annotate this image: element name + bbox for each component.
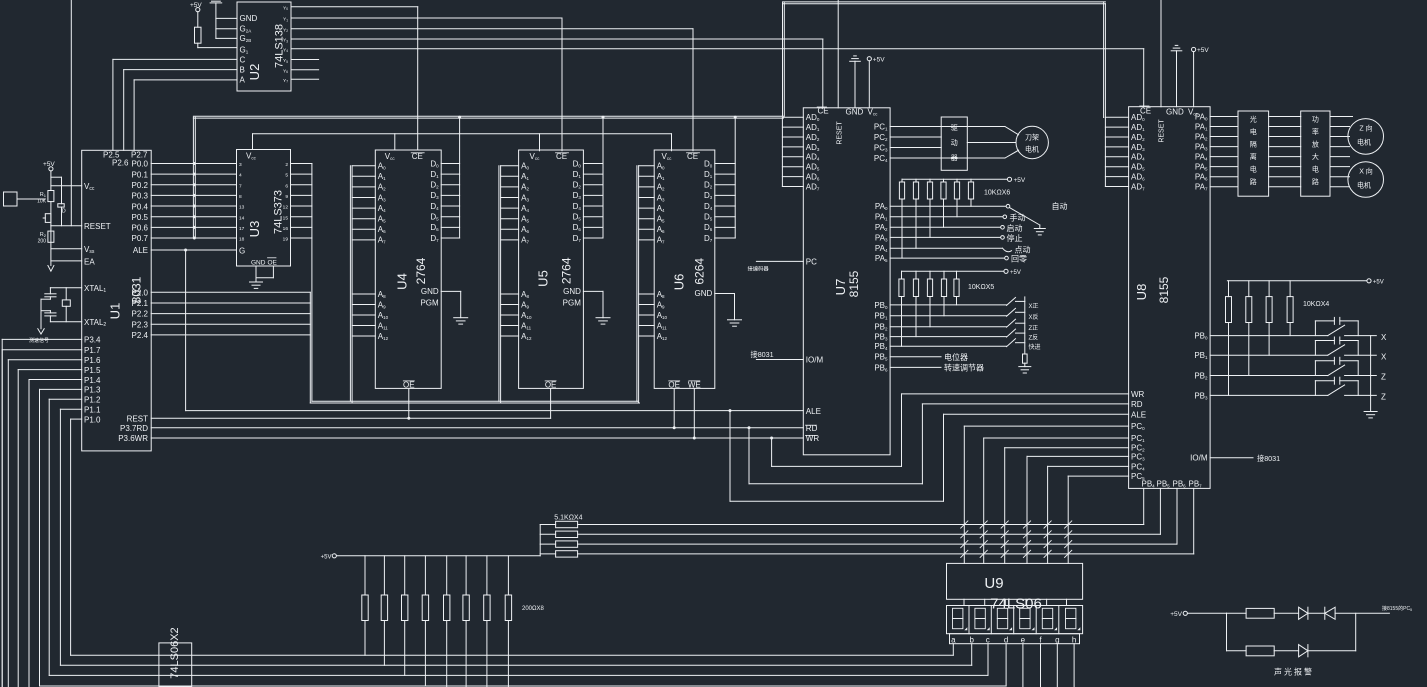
svg-text:启动: 启动	[1007, 223, 1023, 233]
svg-text:74LS373: 74LS373	[273, 190, 285, 234]
EPROM U5 2764	[519, 150, 584, 388]
svg-text:隔: 隔	[1250, 140, 1257, 149]
svg-text:RD: RD	[1131, 400, 1143, 409]
wire Y0 to U4 CE	[291, 6, 418, 8]
svg-text:P2.7: P2.7	[131, 151, 148, 160]
wire switch common vertical	[1370, 336, 1372, 412]
wire U5 address bus vertical	[498, 166, 500, 402]
svg-text:8155: 8155	[1157, 276, 1171, 303]
svg-text:P0.7: P0.7	[132, 234, 149, 243]
svg-text:P0.2: P0.2	[132, 181, 149, 190]
svg-text:WR: WR	[1131, 390, 1145, 399]
svg-text:自动: 自动	[1052, 201, 1068, 211]
svg-text:74LS06X2: 74LS06X2	[169, 627, 181, 678]
svg-text:PGM: PGM	[563, 299, 582, 308]
svg-text:GND: GND	[1166, 107, 1184, 116]
wire U4 address stubs	[352, 165, 375, 167]
svg-text:X正: X正	[1029, 303, 1039, 310]
svg-text:U9: U9	[984, 575, 1003, 592]
wire A bus horizontal	[310, 402, 639, 404]
wire U8 IO/M to 8031	[1210, 457, 1253, 459]
svg-text:5.1KΩX4: 5.1KΩX4	[554, 515, 582, 522]
svg-text:路: 路	[1250, 177, 1257, 186]
svg-text:X 向: X 向	[1359, 167, 1373, 176]
svg-text:200: 200	[38, 239, 47, 245]
wire U6 WE drop	[693, 388, 695, 438]
ground (U6)	[715, 293, 735, 295]
wire U6 data bus vertical	[734, 117, 736, 238]
junction hatch marks (bus taps)	[961, 521, 968, 528]
wire U4 data stubs	[441, 163, 459, 165]
svg-text:P1.2: P1.2	[84, 396, 101, 405]
resistor network RN4 5.1KΩX4	[540, 524, 555, 526]
wire segment row d	[40, 685, 1007, 687]
wire P0/AD bus vertical	[192, 117, 194, 238]
7-seg digit	[1042, 608, 1052, 618]
wire PB5 (potentiometer)	[890, 356, 941, 358]
svg-text:Y1: Y1	[283, 17, 288, 23]
svg-text:h: h	[1072, 635, 1076, 644]
svg-text:器: 器	[951, 154, 958, 162]
svg-text:P1.1: P1.1	[84, 406, 101, 415]
wire U8 AD stubs	[1105, 116, 1128, 118]
ground (U7 top)	[850, 60, 861, 62]
svg-text:点动: 点动	[1015, 245, 1031, 255]
svg-text:17: 17	[239, 226, 245, 232]
svg-text:XTAL2: XTAL2	[84, 318, 106, 328]
svg-text:动: 动	[951, 138, 958, 147]
wire U4 data bus vertical	[459, 117, 461, 238]
svg-text:电机: 电机	[1357, 181, 1371, 190]
wire PA0 row + selector switch to ground	[890, 205, 1006, 207]
peripheral U8 8155	[1129, 107, 1211, 489]
wire U8 PA stubs	[1210, 116, 1238, 118]
wire Y3 to U7 CE	[291, 38, 823, 40]
svg-text:P1.3: P1.3	[84, 386, 101, 395]
svg-text:Y7: Y7	[283, 78, 288, 84]
wire switch common to ground via R	[1024, 297, 1026, 354]
decoder U2 74LS138	[237, 2, 291, 91]
svg-text:+5V: +5V	[321, 554, 332, 560]
wire Y5-Y7 stubs	[291, 59, 319, 61]
ground (U5)	[583, 290, 603, 292]
svg-text:X: X	[1381, 333, 1387, 342]
svg-text:接8031: 接8031	[1257, 454, 1280, 463]
limit switch S1 (X)	[1210, 335, 1328, 337]
svg-text:U8: U8	[1134, 284, 1149, 301]
svg-text:10KΩX6: 10KΩX6	[984, 190, 1010, 197]
wire XTAL1 row	[50, 287, 81, 289]
wire U7 AD stubs	[782, 116, 803, 118]
svg-text:19: 19	[283, 237, 289, 243]
svg-text:转速调节器: 转速调节器	[944, 362, 984, 372]
svg-text:测速信号: 测速信号	[29, 337, 49, 344]
svg-text:PGM: PGM	[420, 299, 439, 308]
wire R1 to RESET node	[50, 202, 52, 226]
svg-text:R2: R2	[40, 232, 47, 238]
svg-text:+5V: +5V	[190, 2, 202, 9]
svg-text:P2.2: P2.2	[132, 310, 149, 319]
resistor network RN2 10KΩX5	[902, 270, 1005, 272]
svg-text:U5: U5	[536, 270, 551, 287]
limit switch S4 (Z)	[1210, 394, 1328, 396]
svg-text:电机: 电机	[1025, 145, 1039, 154]
svg-text:大: 大	[1312, 152, 1319, 161]
svg-text:OE: OE	[668, 380, 680, 389]
SRAM U6 6264	[654, 150, 715, 388]
svg-text:U4: U4	[395, 273, 410, 290]
capacitor C2	[49, 316, 51, 322]
svg-text:电: 电	[1312, 165, 1319, 174]
svg-text:18: 18	[239, 237, 245, 243]
svg-text:2764: 2764	[560, 257, 574, 284]
wire U6 address stubs	[639, 165, 655, 167]
7-seg digit	[953, 608, 963, 618]
resistor R5	[1227, 650, 1247, 652]
wire U3 outputs to A-bus	[291, 163, 312, 165]
svg-text:U7: U7	[833, 279, 848, 296]
capacitor C1	[49, 288, 51, 294]
svg-text:74LS06: 74LS06	[990, 596, 1042, 613]
wire external reset line	[70, 0, 72, 226]
power +5V (display rail)	[332, 554, 336, 558]
wire segment row a	[71, 654, 954, 656]
power +5V (alarm)	[1183, 611, 1187, 615]
svg-text:10KΩX5: 10KΩX5	[968, 284, 994, 291]
resistor R4	[1227, 612, 1247, 614]
MCU U1 8031	[82, 150, 152, 451]
svg-text:GND: GND	[695, 289, 713, 298]
power +5V terminal (reset circuit)	[49, 167, 53, 171]
svg-text:P0.5: P0.5	[132, 213, 149, 222]
limit switch S3 (Z)	[1210, 375, 1328, 377]
svg-text:+5V: +5V	[1170, 611, 1182, 618]
svg-text:电: 电	[1250, 165, 1257, 174]
svg-text:GND: GND	[563, 287, 581, 296]
svg-text:电机: 电机	[1357, 138, 1371, 147]
svg-text:P3.7RD: P3.7RD	[120, 424, 148, 433]
wire Y2 to U6 CE	[291, 28, 693, 30]
svg-text:a: a	[951, 635, 956, 644]
wire U7 RESET from top	[837, 0, 839, 108]
svg-text:OE: OE	[268, 259, 278, 266]
svg-text:IO/M: IO/M	[1190, 454, 1208, 463]
svg-text:6264: 6264	[692, 258, 706, 285]
wire PSEN row	[151, 417, 550, 419]
wire bundle P1.7-P1.0	[2, 349, 82, 351]
wire +5V rail (display)	[336, 555, 540, 557]
svg-text:C: C	[240, 55, 246, 64]
motor M1 (spindle)	[1016, 126, 1048, 158]
wire U6 address bus vertical	[636, 166, 638, 402]
wire P0.0-P0.7 data lines	[151, 163, 236, 165]
power +5V (RN2)	[1004, 269, 1008, 273]
svg-text:g: g	[1055, 635, 1059, 644]
wire PA2 row	[890, 226, 1000, 228]
svg-text:10KΩX4: 10KΩX4	[1303, 301, 1329, 308]
svg-text:P2.3: P2.3	[132, 320, 149, 329]
pushbutton S1	[45, 214, 51, 223]
svg-text:P0.4: P0.4	[132, 202, 149, 211]
svg-text:接8031: 接8031	[751, 350, 774, 359]
svg-text:P0.3: P0.3	[132, 192, 149, 201]
diode D2 (reverse)	[1324, 607, 1326, 619]
svg-text:RESET: RESET	[837, 121, 844, 145]
svg-text:驱: 驱	[951, 124, 958, 132]
7-seg digit	[975, 608, 985, 618]
wire ALE net to U8	[729, 411, 731, 502]
wire +5V to R1	[50, 171, 52, 191]
svg-text:U6: U6	[672, 274, 687, 291]
svg-text:d: d	[1004, 635, 1008, 644]
svg-text:OE: OE	[403, 380, 415, 389]
7-seg digit	[1020, 608, 1030, 618]
svg-text:5: 5	[285, 173, 288, 179]
wire PA5 row	[890, 257, 1004, 259]
wire AD bus horizontal	[193, 115, 783, 117]
motor M2 Z-axis	[1348, 119, 1384, 155]
resistor network RN3 10KΩX4	[1227, 280, 1367, 282]
svg-text:+5V: +5V	[1014, 177, 1026, 184]
wire XTAL2 row	[50, 321, 81, 323]
svg-text:WE: WE	[688, 380, 701, 389]
svg-text:14: 14	[239, 215, 245, 221]
wire PA4 row	[890, 247, 1002, 249]
wire U9 outputs to display	[963, 599, 965, 605]
EPROM U4 2764	[375, 150, 441, 388]
svg-text:2: 2	[285, 162, 288, 168]
svg-text:快进: 快进	[1029, 343, 1041, 351]
svg-text:9: 9	[285, 194, 288, 200]
driver U9 74LS06	[947, 563, 1083, 599]
resistor R2	[48, 231, 54, 242]
power +5V (RN1)	[1007, 177, 1011, 181]
svg-text:R1: R1	[40, 192, 47, 198]
wire U4 OE drop	[408, 388, 410, 418]
ground arrow (crystal)	[38, 329, 44, 334]
wire U8 PC0-PC5 to U9	[964, 425, 1128, 427]
driver box (spindle)	[941, 117, 967, 170]
wire R2 to Vss/EA	[50, 226, 52, 266]
svg-text:A: A	[240, 75, 246, 84]
wire U8 RESET from top	[1160, 0, 1162, 107]
wire PC1-PC4 to driver	[890, 126, 1005, 128]
wire U5 address stubs	[501, 165, 519, 167]
svg-text:6: 6	[285, 183, 288, 189]
capacitor C3 branch	[51, 176, 62, 178]
wire U6 OE drop	[673, 388, 675, 427]
ground (U4)	[441, 290, 461, 292]
display DS1 7-segment x6	[947, 606, 1083, 634]
svg-text:P1.7: P1.7	[84, 346, 101, 355]
svg-text:GND: GND	[421, 287, 439, 296]
svg-text:B: B	[240, 66, 245, 75]
motor M3 X-axis	[1348, 162, 1384, 198]
svg-text:Y0: Y0	[283, 5, 288, 11]
wire RD row	[151, 427, 803, 429]
svg-text:U1: U1	[108, 303, 123, 320]
svg-text:XTAL1: XTAL1	[84, 284, 106, 294]
svg-text:e: e	[1021, 635, 1026, 644]
wire WR net to U8	[771, 438, 773, 466]
wire RESET pin row	[51, 225, 82, 227]
resistor R1	[48, 191, 54, 202]
svg-text:Z: Z	[1381, 393, 1386, 402]
svg-text:OE: OE	[545, 380, 557, 389]
svg-text:c: c	[986, 635, 990, 644]
wire segment row b	[60, 664, 971, 666]
svg-text:D: D	[62, 209, 66, 215]
svg-text:声光报警: 声光报警	[1274, 667, 1314, 677]
svg-text:ALE: ALE	[1131, 411, 1146, 420]
svg-text:+5V: +5V	[1010, 270, 1021, 276]
svg-text:RESET: RESET	[84, 222, 111, 231]
limit switch S2 (X)	[1210, 354, 1328, 356]
svg-text:G: G	[239, 246, 245, 255]
svg-text:Y6: Y6	[283, 68, 288, 74]
wire alarm feed	[1187, 612, 1226, 614]
svg-text:74LS138: 74LS138	[274, 24, 286, 68]
svg-text:U3: U3	[247, 221, 262, 238]
svg-text:RESET: RESET	[1159, 119, 1166, 143]
wire A bus verticals	[311, 164, 313, 402]
svg-text:8155: 8155	[847, 270, 861, 297]
svg-text:率: 率	[1312, 127, 1319, 136]
svg-text:PC: PC	[806, 258, 817, 267]
wire alarm right link	[1355, 613, 1357, 651]
wire U7 ALE row	[186, 410, 804, 412]
svg-text:U2: U2	[247, 64, 262, 81]
svg-text:13: 13	[239, 205, 245, 211]
svg-text:+5V: +5V	[1373, 280, 1384, 286]
ground (U8 top)	[1171, 50, 1182, 52]
diode D3 (buzzer)	[1299, 645, 1308, 657]
wire U6 data stubs	[715, 163, 735, 165]
svg-text:刀架: 刀架	[1025, 134, 1039, 142]
svg-text:电位器: 电位器	[944, 352, 968, 362]
wire U8 PB4-PB7 to segment-select rows	[1143, 488, 1145, 524]
svg-text:功: 功	[1312, 115, 1319, 124]
wire P2.0-P2.4 address lines	[151, 291, 310, 293]
svg-text:离: 离	[1250, 152, 1257, 161]
switches SW PB0-PB4	[890, 304, 1006, 306]
wire segment pins	[952, 644, 954, 656]
peripheral U7 8155	[803, 108, 890, 455]
svg-text:P1.0: P1.0	[84, 415, 101, 424]
power +5V (U7)	[867, 57, 871, 61]
svg-text:接编码器: 接编码器	[748, 265, 770, 273]
svg-text:光: 光	[1250, 115, 1257, 124]
wire U8 AD bus vertical	[1104, 118, 1106, 187]
svg-text:IO/M: IO/M	[806, 356, 824, 365]
svg-text:P1.5: P1.5	[84, 366, 101, 375]
power +5V (RN3)	[1367, 279, 1371, 283]
wire PB6 (speed adjust)	[890, 366, 941, 368]
ground (limit switches)	[1364, 411, 1377, 413]
latch U3 74LS373	[237, 150, 291, 267]
ground (U3)	[255, 266, 257, 282]
wire 5.1K rows	[578, 524, 1144, 526]
svg-text:P2.6: P2.6	[112, 159, 129, 168]
wire AD bus loop (top rectangle)	[782, 3, 784, 117]
svg-text:Z正: Z正	[1029, 325, 1039, 332]
svg-text:P0.0: P0.0	[132, 160, 149, 169]
wire ALE drop to U7	[185, 250, 187, 411]
wire caps common	[41, 298, 50, 300]
wire U7 AD bus vertical	[781, 118, 783, 186]
wire driver to motor	[1005, 127, 1019, 135]
7-seg digit	[1066, 608, 1076, 618]
crystal Y1	[65, 288, 67, 300]
svg-text:停止: 停止	[1007, 233, 1023, 243]
svg-text:200ΩX8: 200ΩX8	[522, 606, 544, 612]
power +5V (U2 G1 pullup)	[196, 8, 200, 12]
svg-text:电: 电	[1250, 127, 1257, 136]
svg-text:REST: REST	[127, 414, 148, 423]
wire P2.5-P2.7 to U2	[112, 59, 114, 150]
opto-isolation box	[1238, 111, 1269, 196]
svg-text:ALE: ALE	[806, 407, 821, 416]
svg-text:手动: 手动	[1010, 212, 1026, 222]
wire amp to Z motor	[1330, 116, 1353, 118]
svg-text:ALE: ALE	[133, 246, 148, 255]
svg-text:8: 8	[239, 194, 242, 200]
svg-text:EA: EA	[84, 258, 95, 267]
svg-text:3: 3	[239, 162, 242, 168]
connector P1	[4, 192, 18, 206]
svg-text:X: X	[1381, 352, 1387, 361]
svg-text:Z: Z	[1381, 373, 1386, 382]
wire ALE row U1-U3	[151, 249, 236, 251]
svg-text:X反: X反	[1029, 313, 1039, 321]
svg-text:P1.6: P1.6	[84, 356, 101, 365]
ground arrow (EA)	[48, 266, 54, 272]
svg-text:P3.6WR: P3.6WR	[118, 434, 148, 443]
svg-text:+5V: +5V	[873, 56, 885, 63]
svg-text:8031: 8031	[130, 276, 144, 303]
svg-text:+5V: +5V	[1197, 47, 1209, 54]
power-amplifier box	[1301, 111, 1330, 196]
svg-text:2764: 2764	[414, 257, 428, 284]
svg-text:P0.6: P0.6	[132, 224, 149, 233]
wire U4 address bus vertical	[349, 166, 351, 402]
svg-text:7: 7	[239, 183, 242, 189]
wire WR row	[151, 437, 803, 439]
svg-text:P1.4: P1.4	[84, 376, 101, 385]
wire PA1 row	[890, 216, 1003, 218]
svg-text:b: b	[969, 635, 974, 644]
resistor R3 (U2 pullup)	[197, 12, 199, 28]
display pin strip	[950, 634, 1080, 644]
resistor network RN1 10KΩX6	[902, 178, 1007, 180]
svg-text:Z 向: Z 向	[1359, 124, 1372, 133]
svg-text:放: 放	[1312, 140, 1319, 149]
svg-text:P0.1: P0.1	[132, 170, 149, 179]
svg-text:GND: GND	[846, 108, 864, 117]
svg-text:GND: GND	[251, 259, 266, 266]
svg-text:CE: CE	[818, 107, 829, 116]
wire U5 data stubs	[583, 163, 603, 165]
wire IO/M input (to 8031)	[756, 359, 803, 361]
wire Y4 to U8 CE	[291, 48, 1144, 50]
svg-text:路: 路	[1312, 177, 1319, 186]
wire PA3 row	[890, 236, 1000, 238]
7-seg digit	[997, 608, 1007, 618]
wire U5 data bus vertical	[602, 117, 604, 238]
wire P3.4 input	[2, 338, 82, 340]
wire RD net to U8	[748, 428, 750, 484]
wire segment row c	[49, 674, 988, 676]
